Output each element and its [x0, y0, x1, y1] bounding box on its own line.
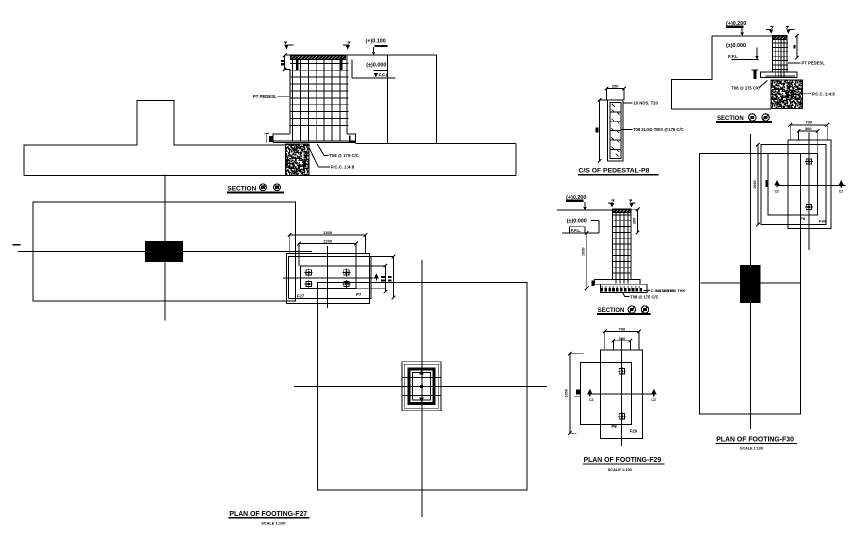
svg-text:T08 @ 175 C/C: T08 @ 175 C/C [732, 85, 760, 90]
svg-text:300: 300 [619, 336, 626, 341]
section A-A pedestal vertical rebars [292, 60, 294, 141]
F30 detail left dim 1050 [757, 145, 759, 225]
section A-A pedestal P7 outline [285, 55, 290, 134]
svg-text:1050: 1050 [753, 180, 757, 188]
left plan centerline dash [13, 244, 21, 246]
C-C left dim 1050 [586, 233, 588, 288]
svg-text:700: 700 [805, 120, 812, 125]
svg-text:P.C.C. 1:4:8: P.C.C. 1:4:8 [331, 165, 355, 170]
section A-A PCC block [286, 144, 310, 175]
B-B pedestal outline [772, 36, 787, 72]
B-B pedestal hatch band [773, 36, 787, 39]
section A-A cut arrow left [284, 45, 288, 50]
F27 detail grid arrow C1 [374, 273, 380, 279]
F30 detail wide rect [761, 145, 826, 225]
section A-A pedestal ties [290, 62, 349, 64]
FFL marker A-A [374, 73, 378, 77]
svg-text:1500: 1500 [323, 230, 333, 235]
svg-text:F30: F30 [819, 219, 827, 224]
svg-text:200: 200 [612, 84, 619, 89]
F27 detail top dim 1200 [299, 243, 356, 245]
svg-text:(+)0.100: (+)0.100 [366, 39, 386, 45]
F29 footing rect [601, 350, 643, 438]
F29 top dim 300 [613, 340, 630, 342]
svg-text:PT PEDESL: PT PEDESL [802, 61, 826, 66]
F27 detail vertical centerline [326, 246, 328, 308]
svg-text:PT PEDESL: PT PEDESL [253, 94, 277, 99]
section A-A FFL step [351, 59, 353, 78]
C-C right dim 300 [637, 209, 639, 232]
B-B footing flare [761, 72, 797, 78]
F27 detail rebar symbols [306, 270, 311, 275]
svg-text:(±)0.000: (±)0.000 [567, 218, 587, 224]
F27 plan horizontal centerline [294, 385, 547, 387]
B-B pedestal ties [772, 42, 787, 44]
label P.C.C. 1:4:8 100 THK [644, 289, 647, 291]
F30 detail tall rect [788, 140, 831, 229]
F27 detail horizontal centerline [283, 277, 374, 279]
label P.C.C. 1:4:8 [309, 147, 330, 167]
F29 vertical centerline [620, 339, 622, 446]
label 10 NOS. T20 [623, 102, 633, 104]
F30 detail top dim 700 [790, 124, 827, 126]
svg-text:F.F.L: F.F.L [379, 73, 389, 78]
svg-text:PLAN OF FOOTING-F27: PLAN OF FOOTING-F27 [229, 511, 307, 518]
B-B pedestal bars [774, 40, 776, 77]
svg-text:P.C.C. 1:4:8: P.C.C. 1:4:8 [812, 91, 835, 96]
C-C FFL line [562, 232, 599, 234]
svg-text:P8: P8 [800, 216, 806, 221]
C-C FFL box [570, 227, 586, 233]
C-C footing slab [601, 284, 648, 292]
svg-text:1200: 1200 [323, 239, 333, 244]
svg-text:300: 300 [633, 218, 637, 224]
svg-text:C2: C2 [839, 189, 843, 193]
svg-text:F.F.L: F.F.L [728, 54, 738, 59]
B-B right dim [796, 36, 798, 58]
svg-text:C2: C2 [775, 189, 779, 193]
section A-A pedestal top hatch band [291, 56, 346, 60]
label T08 2LGD TIES [622, 128, 633, 130]
F29 top dim 700 [605, 330, 639, 332]
C-C pedestal ties [613, 214, 632, 216]
F30 detail top dim 300 [799, 130, 818, 132]
section A-A footing flare [273, 134, 290, 143]
F29 adjacent footing rect [581, 362, 632, 424]
B-B PCC block [771, 80, 803, 109]
F29 horizontal centerline [593, 393, 657, 395]
C-C footing flare [595, 279, 613, 284]
label PT PEDESL (B-B) [788, 62, 801, 64]
F30 column (filled) [740, 265, 761, 303]
svg-text:1050: 1050 [564, 389, 568, 397]
svg-text:T08 @ 175 C/C: T08 @ 175 C/C [329, 153, 359, 158]
svg-text:T08 @ 175 C/C: T08 @ 175 C/C [630, 295, 658, 300]
svg-text:C2: C2 [651, 398, 655, 402]
svg-text:SCALE 1:100: SCALE 1:100 [261, 521, 285, 526]
svg-text:C2: C2 [589, 398, 593, 402]
C-C slab bottom rebar zigzag [601, 288, 644, 291]
pedestal P8 left dim 600 [599, 100, 601, 161]
svg-text:300: 300 [805, 126, 812, 131]
section A-A flare end hooks [269, 136, 273, 142]
F29 left dim 1050 [569, 354, 571, 434]
left plan horizontal centerline [18, 251, 312, 253]
F30 detail pedestal rect [768, 154, 818, 215]
C-C pedestal outline [613, 209, 632, 279]
section A-A pedestal top-left dim marks [283, 53, 287, 57]
section A-A top/ground line [285, 54, 437, 56]
pedestal P8 cross-section inner rect [610, 102, 621, 158]
pedestal P8 cross-section outer rect [608, 100, 624, 161]
F30 detail vertical centerline [808, 133, 810, 250]
svg-text:(±)0.000: (±)0.000 [726, 43, 746, 49]
C-C flare left hook [591, 280, 594, 286]
label T08 @ 175 C/C (C-C) [623, 293, 630, 297]
svg-text:PLAN OF FOOTING-F29: PLAN OF FOOTING-F29 [584, 457, 662, 464]
pedestal P8 stirrup rungs [610, 111, 621, 113]
label P.C.C. 1:4:8 (B-B) [803, 93, 812, 95]
svg-text:SCALE 1:100: SCALE 1:100 [608, 467, 632, 472]
svg-text:C/S OF PEDESTAL-P8: C/S OF PEDESTAL-P8 [579, 168, 650, 175]
C-C pedestal bars [615, 213, 617, 284]
svg-text:T08 2LGD TIES @175 C/C: T08 2LGD TIES @175 C/C [633, 127, 684, 132]
section A-A starter bar hooks [296, 59, 298, 71]
svg-text:1050: 1050 [582, 247, 586, 255]
svg-text:P8: P8 [611, 424, 617, 429]
svg-text:SCALE 1:100: SCALE 1:100 [740, 446, 763, 450]
svg-text:F29: F29 [630, 428, 638, 433]
F27 detail pedestal rect [301, 266, 356, 289]
F30 vertical centerline [750, 134, 752, 429]
F30 detail centerline arrows [774, 180, 780, 186]
svg-text:F.F.L.: F.F.L. [571, 228, 582, 233]
F30 detail horizontal centerline [777, 184, 845, 186]
C-C pedestal hatch band [613, 210, 631, 213]
F27 detail outer rect B [288, 257, 393, 299]
svg-text:(±)0.000: (±)0.000 [366, 62, 386, 68]
label T08 @ 175 C/C [317, 144, 328, 156]
B-B FFL line [732, 58, 759, 60]
B-B flare left dim block [753, 70, 756, 79]
F27 footing plan rectangle [318, 283, 527, 491]
F27 center pedestal detail [402, 362, 441, 411]
F30 detail rebar symbols [806, 159, 811, 164]
F30 horizontal centerline [700, 282, 800, 284]
section A-A flare left dim tick [266, 134, 268, 144]
F27 plan vertical centerline [421, 260, 423, 517]
svg-text:PLAN OF FOOTING-F30: PLAN OF FOOTING-F30 [716, 437, 794, 444]
left plan column (filled) [145, 241, 183, 262]
svg-text:700: 700 [619, 327, 626, 332]
C-C ground line [557, 209, 613, 211]
F30 footing plan rectangle [700, 153, 801, 414]
left footing plan rectangle [33, 202, 296, 301]
section A-A cut arrow right [346, 45, 350, 50]
section A-A right wall lines [436, 55, 438, 143]
F27 detail right dim lines [384, 266, 386, 292]
F29 centerline arrows C2 [587, 389, 593, 395]
F29 left dim 600 label [576, 390, 580, 395]
svg-text:F27: F27 [297, 293, 305, 298]
F27 detail outer rect A [287, 254, 370, 304]
F29 rebar symbols [619, 369, 624, 374]
B-B step outline [672, 36, 773, 109]
section A-A footing outline [24, 101, 286, 176]
left plan vertical centerline [164, 175, 166, 321]
B-B cut arrows [769, 29, 773, 34]
C-C cut arrows [610, 203, 614, 208]
svg-text:M8 T20 THC: M8 T20 THC [656, 289, 675, 293]
F27 detail top dim 1500 [290, 234, 366, 236]
svg-text:P7: P7 [356, 292, 362, 297]
svg-text:10 NOS. T20: 10 NOS. T20 [633, 101, 658, 106]
